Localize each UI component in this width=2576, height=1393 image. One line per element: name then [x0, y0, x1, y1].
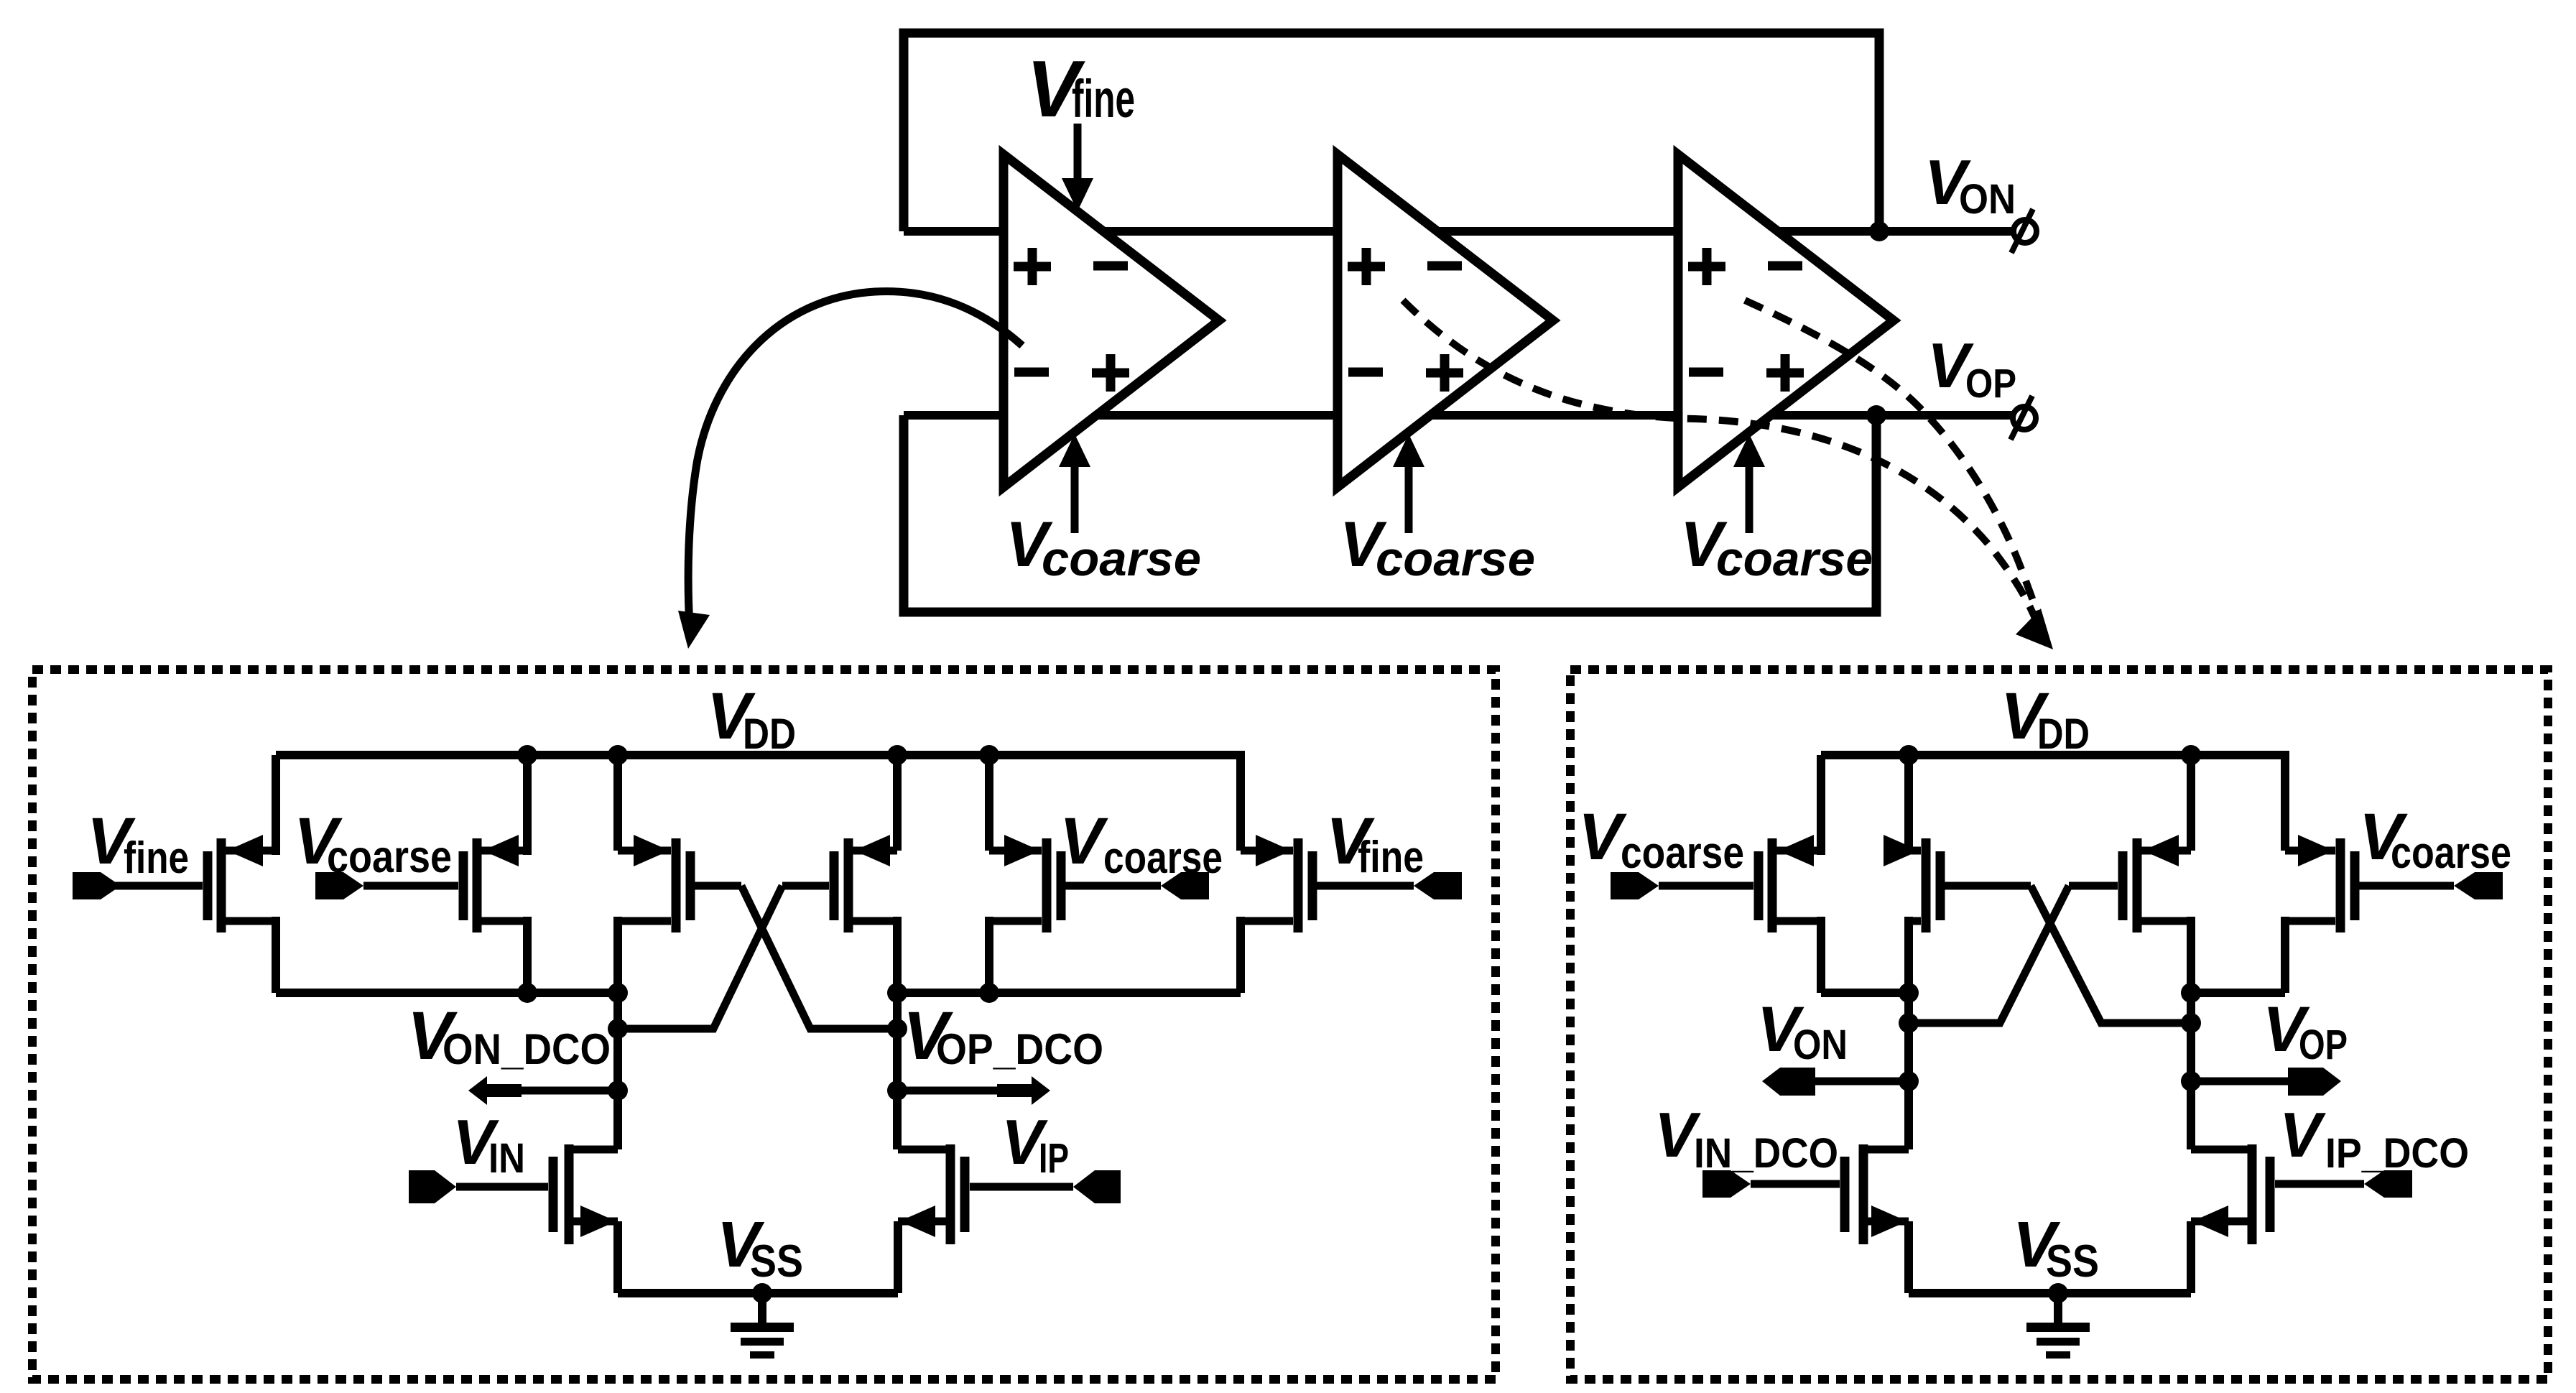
label V_coarse left cell [294, 805, 452, 882]
label V_coarse left (right cell) [1578, 800, 1744, 878]
wire bottom rail seg1 [904, 411, 1006, 420]
wire bottom rail seg3 [1428, 411, 1681, 420]
svg-text:fine: fine [124, 833, 189, 883]
wire dashed callout from U3 [1745, 300, 2053, 649]
nmos M7 input V_IN [456, 1144, 618, 1293]
svg-text:DD: DD [2037, 710, 2090, 758]
wire cross-couple M4 gate to V_ON_DCO [618, 886, 782, 1029]
port V_fine right [1414, 872, 1462, 899]
pmos M3 cross-coupled left [618, 755, 741, 993]
wire VSS rail right cell [1909, 1289, 2191, 1297]
node phi V_OP [2011, 396, 2036, 440]
wire callout arrow to left schematic [678, 292, 1022, 649]
port V_OP_DCO output [897, 1076, 1050, 1105]
svg-text:V: V [1060, 805, 1108, 878]
nmos MF input V_IP_DCO [2191, 1144, 2364, 1293]
port V_IN [409, 1170, 456, 1203]
pmos M1 varactor V_fine left [73, 755, 276, 993]
node V_OP column [2187, 993, 2195, 1149]
node VSS junction [752, 1283, 772, 1303]
port V_IP_DCO [2364, 1170, 2412, 1198]
label V_ON output [1924, 147, 2016, 223]
label V_IP_DCO [2279, 1099, 2469, 1177]
svg-text:IP: IP [1039, 1135, 1069, 1182]
wire drain rail V_ON [1821, 989, 1909, 997]
svg-text:coarse: coarse [1716, 532, 1873, 586]
pmos MA varactor V_coarse left [1659, 755, 1821, 993]
wire drain rail V_ON_DCO [276, 989, 618, 997]
wire drain rail V_OP_DCO [897, 989, 1241, 997]
wire V_coarse arrow U2 [1393, 434, 1424, 533]
label V_IN [453, 1106, 525, 1182]
svg-text:ON: ON [1959, 176, 2016, 223]
pmos M5 varactor V_coarse right [989, 755, 1161, 993]
node VSS junction right [2048, 1283, 2068, 1303]
wire VDD rail right cell [1821, 751, 2285, 759]
label V_coarse U1 [1006, 508, 1201, 586]
wire top rail seg1 [904, 227, 1006, 236]
svg-text:OP_DCO: OP_DCO [936, 1025, 1103, 1073]
label V_OP output [1927, 330, 2016, 407]
node V_OP_DCO column [893, 993, 902, 1149]
wire VSS rail left cell [618, 1289, 898, 1297]
label V_DD left [707, 680, 796, 758]
pmos M2 varactor V_coarse left [363, 755, 527, 993]
nmos M8 input V_IP [898, 1144, 1073, 1293]
svg-text:OP: OP [1965, 361, 2016, 407]
node V_OP junction [1866, 405, 1886, 425]
wire bottom rail seg2 [1094, 411, 1340, 420]
svg-text:coarse: coarse [1042, 532, 1201, 586]
port V_coarse right (right cell) [2454, 872, 2503, 899]
port V_ON_DCO output [468, 1076, 618, 1105]
delay cell U3 [1678, 154, 1894, 487]
pmos MB cross-coupled left [1884, 755, 2031, 993]
port V_coarse left [315, 872, 363, 899]
nmos ME input V_IN_DCO [1751, 1144, 1909, 1293]
label V_IP [1001, 1106, 1069, 1182]
dashed enclosure right cell [1570, 670, 2548, 1379]
svg-text:coarse: coarse [1621, 828, 1744, 878]
svg-text:IP_DCO: IP_DCO [2325, 1130, 2469, 1177]
svg-text:V: V [1578, 800, 1627, 874]
wire top rail seg3 [1433, 227, 1681, 236]
label V_coarse right (right cell) [2359, 800, 2511, 878]
svg-text:OP: OP [2299, 1022, 2348, 1068]
label V_ON_DCO [407, 998, 611, 1074]
svg-text:IN: IN [488, 1135, 525, 1182]
delay cell U1 [1004, 154, 1219, 487]
junction dots right cell [1899, 745, 2201, 1091]
svg-text:V: V [2279, 1099, 2326, 1170]
wire cross-couple MB gate to V_OP [2031, 886, 2191, 1023]
label V_ON node [1757, 993, 1848, 1068]
pmos M6 varactor V_fine right [1241, 751, 1414, 993]
junction dots left cell [517, 745, 999, 1101]
svg-text:coarse: coarse [327, 832, 452, 882]
node V_ON junction [1869, 221, 1889, 241]
svg-text:fine: fine [1358, 833, 1424, 882]
port V_OP output [2191, 1068, 2341, 1096]
svg-text:coarse: coarse [1103, 833, 1223, 883]
label V_IN_DCO [1654, 1099, 1838, 1177]
svg-text:IN_DCO: IN_DCO [1694, 1130, 1838, 1177]
dashed enclosure left cell [32, 670, 1496, 1379]
svg-text:DD: DD [743, 710, 796, 758]
svg-text:SS: SS [750, 1236, 803, 1287]
wire bottom feedback loop [904, 415, 1876, 612]
port V_coarse right [1161, 872, 1209, 899]
wire drain rail V_OP [2191, 989, 2285, 997]
node V_ON column [1904, 993, 1913, 1149]
label V_OP_DCO [903, 998, 1103, 1074]
label V_SS left [717, 1209, 803, 1287]
pmos M4 cross-coupled right [782, 755, 897, 993]
svg-text:SS: SS [2046, 1236, 2099, 1287]
pmos MD varactor V_coarse right [2285, 751, 2454, 993]
wire dashed callout from U2 [1403, 300, 2037, 624]
svg-text:coarse: coarse [2391, 828, 2511, 878]
svg-text:coarse: coarse [1376, 532, 1535, 586]
label V_fine (top) [1027, 45, 1135, 134]
label V_SS right [2013, 1209, 2099, 1287]
delay cell U2 [1338, 154, 1553, 487]
wire V_coarse arrow U3 [1733, 434, 1765, 533]
svg-text:fine: fine [1072, 69, 1135, 129]
port V_IP [1073, 1170, 1121, 1203]
port V_coarse left (right cell) [1611, 872, 1659, 899]
pmos MC cross-coupled right [2069, 755, 2191, 993]
port V_fine left [73, 872, 121, 899]
ground left cell [731, 1293, 794, 1359]
svg-text:ON: ON [1793, 1022, 1848, 1068]
label V_coarse U3 [1680, 508, 1873, 586]
port V_IN_DCO [1702, 1170, 1751, 1198]
label V_DD right [2001, 680, 2090, 758]
label V_fine left [87, 805, 189, 883]
label V_fine right [1326, 805, 1424, 882]
label V_OP node [2263, 993, 2348, 1068]
wire cross-couple M3 gate to V_OP_DCO [741, 886, 897, 1029]
wire VDD rail left cell [276, 751, 1241, 759]
port V_ON output [1762, 1068, 1909, 1096]
wire V_coarse arrow U1 [1059, 434, 1090, 533]
ground right cell [2026, 1293, 2090, 1359]
wire top feedback loop [904, 33, 1879, 231]
wire bottom rail seg4 (V_OP output) [1769, 411, 2012, 420]
svg-text:ON_DCO: ON_DCO [443, 1025, 611, 1073]
label V_coarse U2 [1340, 508, 1535, 586]
wire top rail seg2 [1099, 227, 1340, 236]
wire cross-couple MC gate to V_ON [1909, 886, 2069, 1023]
node V_ON_DCO column [613, 993, 622, 1149]
wire top rail seg4 (V_ON output) [1774, 227, 2012, 236]
label V_coarse right cell1 [1060, 805, 1223, 883]
node phi V_ON [2011, 209, 2037, 253]
wire V_fine control arrow [1062, 124, 1093, 211]
